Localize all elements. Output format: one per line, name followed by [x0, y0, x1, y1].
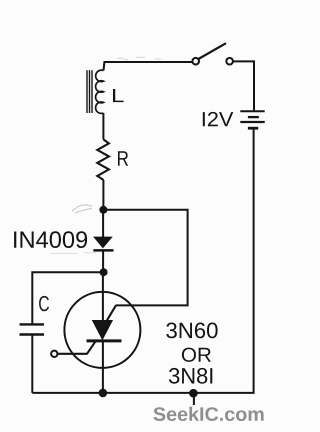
label L: [113, 89, 124, 102]
label 3N81: [169, 368, 212, 384]
SCS Q1 anode gate diagonal lead: [107, 305, 116, 321]
node C junction dot on bottom wire: [99, 389, 108, 398]
node D junction dot on bottom wire with stub: [189, 389, 198, 405]
wire from SCS cathode down to node C: [102, 341, 104, 393]
label 12V: [203, 112, 234, 126]
wire from resistor bottom to node A: [102, 180, 104, 210]
node A junction dot below R: [99, 206, 107, 214]
wire feedback loop: node A right, down, to anode gate: [103, 210, 187, 306]
capacitor C plates: [20, 324, 45, 334]
artifact faint squiggle left of node A: [72, 205, 92, 213]
inductor L coil loops: [96, 70, 104, 113]
SCS Q1 gate terminal circle: [51, 351, 57, 357]
label 1N4009: [14, 231, 87, 248]
wire from switch right terminal to battery positive: [233, 61, 254, 110]
wire battery negative down, bottom wire to the left: [32, 130, 253, 393]
label OR: [182, 348, 211, 362]
diode D1 cathode bar: [93, 249, 113, 252]
resistor R zigzag: [97, 140, 109, 181]
watermark SeekIC.com: [154, 407, 264, 421]
wire from node B down into SCS anode: [102, 272, 104, 321]
wire from diode to node B: [102, 250, 104, 272]
artifact faint speckles on top wire: [117, 57, 161, 59]
battery B1 plates: [240, 111, 264, 128]
node B junction dot below diode: [100, 268, 108, 276]
SCS Q1 cathode gate diagonal lead: [87, 341, 96, 354]
wire from node A down to diode anode: [102, 210, 104, 238]
wire top horizontal from inductor riser to switch: [104, 62, 193, 71]
diode D1 triangle: [95, 238, 110, 247]
wire from coil bottom to resistor top: [102, 113, 104, 140]
SCS Q1 anode triangle: [93, 321, 111, 338]
label 3N60: [166, 323, 217, 339]
SCS Q1 cathode bar: [87, 339, 122, 342]
wire from node B left and down to capacitor top plate: [32, 272, 103, 324]
switch S1: [192, 43, 233, 64]
label R: [118, 151, 128, 166]
inductor L core lines: [87, 70, 92, 113]
label C: [39, 296, 49, 311]
SCS Q1 cathode gate horizontal lead: [57, 353, 87, 355]
SCS Q1 envelope circle: [64, 292, 140, 368]
wire from capacitor bottom plate down to bottom wire: [31, 335, 33, 393]
artifact faint dash above node B wire: [50, 252, 96, 255]
